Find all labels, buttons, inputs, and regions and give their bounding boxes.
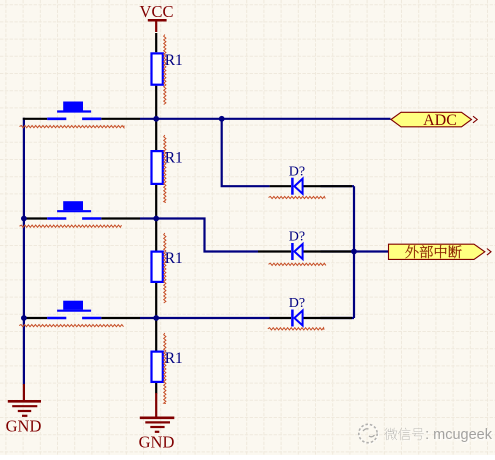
svg-text:D?: D? (289, 164, 305, 179)
svg-text:D?: D? (289, 296, 305, 311)
svg-text:D?: D? (289, 230, 305, 245)
svg-text:VCC: VCC (140, 2, 174, 21)
svg-text:R1: R1 (165, 149, 183, 166)
svg-text:R1: R1 (165, 350, 183, 367)
svg-text:R1: R1 (165, 250, 183, 267)
svg-text:R1: R1 (165, 52, 183, 69)
svg-text:GND: GND (6, 417, 42, 436)
svg-text:GND: GND (139, 433, 175, 452)
svg-text:: mcugeek: : mcugeek (425, 427, 493, 443)
svg-text:ADC: ADC (423, 112, 457, 129)
